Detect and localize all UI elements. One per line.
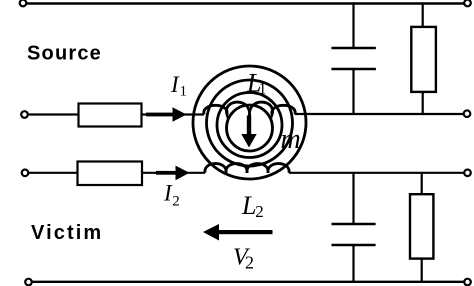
svg-text:I: I bbox=[170, 72, 180, 97]
terminal source-right bbox=[464, 110, 471, 117]
wire resistor to arrow bbox=[142, 113, 205, 115]
terminal top-right bbox=[464, 0, 471, 6]
wire victim line right of transformer bbox=[289, 172, 464, 174]
svg-text:L: L bbox=[241, 191, 256, 220]
capacitor source side bbox=[331, 47, 376, 50]
wire resistor top stem upper bbox=[422, 4, 424, 28]
svg-text:m: m bbox=[281, 124, 301, 155]
wire bottom rail bbox=[32, 281, 464, 283]
transformer core circle 3 bbox=[217, 93, 282, 158]
wire cap top stem lower bbox=[352, 173, 354, 224]
wire resistor bottom stem upper bbox=[422, 92, 424, 115]
resistor victim shunt bbox=[410, 194, 433, 258]
svg-text:Source: Source bbox=[27, 43, 102, 65]
wire victim line left bbox=[29, 172, 79, 174]
current arrow I2 bbox=[156, 166, 190, 181]
wire cap bottom stem lower bbox=[352, 245, 354, 282]
current arrow I1 bbox=[146, 107, 187, 122]
voltage arrow V2 (left) bbox=[203, 224, 273, 241]
svg-text:2: 2 bbox=[255, 202, 264, 221]
capacitor victim side bbox=[332, 223, 376, 226]
transformer core circle 2 bbox=[207, 80, 293, 166]
mutual coupling arrow (down) bbox=[241, 116, 256, 148]
resistor source shunt bbox=[411, 27, 436, 92]
winding L1 top bbox=[204, 102, 295, 117]
terminal source-left bbox=[21, 111, 28, 118]
resistor source series bbox=[79, 104, 142, 127]
svg-text:2: 2 bbox=[245, 253, 254, 273]
wire cap bottom stem upper bbox=[352, 69, 354, 115]
transformer core circle outer bbox=[193, 66, 306, 179]
terminal victim-right bbox=[464, 170, 471, 177]
wire top rail bbox=[26, 2, 464, 4]
wire source line right of transformer bbox=[295, 113, 464, 115]
wire cap top stem upper bbox=[352, 4, 354, 49]
transformer core circle inner bbox=[227, 105, 273, 151]
svg-text:1: 1 bbox=[180, 84, 188, 100]
terminal bottom-left bbox=[25, 279, 32, 286]
svg-text:Victim: Victim bbox=[31, 222, 103, 244]
svg-text:2: 2 bbox=[172, 193, 180, 209]
resistor victim series bbox=[78, 162, 143, 186]
terminal bottom-right bbox=[464, 279, 471, 286]
terminal victim-left bbox=[22, 170, 29, 177]
svg-text:1: 1 bbox=[259, 81, 267, 98]
wire resistor to arrow victim bbox=[142, 172, 205, 174]
wire resistor top stem lower bbox=[421, 173, 423, 194]
terminal top-left bbox=[20, 0, 27, 6]
wire resistor bottom stem lower bbox=[421, 259, 423, 282]
winding L2 bottom bbox=[205, 164, 289, 173]
wire source line left bbox=[28, 113, 79, 115]
